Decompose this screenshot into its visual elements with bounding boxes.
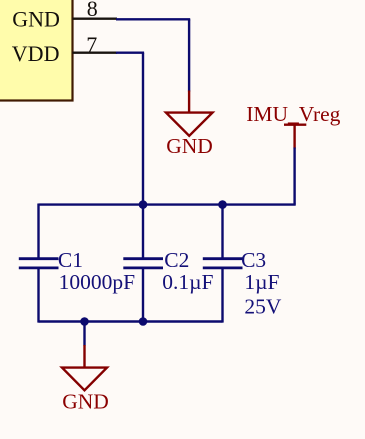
power GND triangle (top)	[166, 113, 213, 136]
capacitor C3 bottom lead	[221, 268, 223, 323]
capacitor C1 bottom lead	[37, 268, 39, 323]
svg-text:GND: GND	[12, 7, 60, 32]
svg-text:C2: C2	[164, 248, 189, 272]
pin 8	[73, 18, 118, 20]
junction dot top rail / C3	[218, 200, 227, 209]
capacitor C3 plates	[203, 257, 243, 260]
power GND triangle (bottom)	[62, 368, 107, 391]
power GND stub (top)	[188, 91, 190, 114]
svg-text:GND: GND	[166, 134, 213, 158]
wire top rail	[39, 203, 296, 205]
junction dot top rail / C2	[139, 200, 148, 209]
svg-text:1µF: 1µF	[244, 270, 279, 294]
wire IMU_Vreg vertical	[293, 148, 295, 205]
capacitor C1 top lead	[37, 204, 39, 259]
svg-text:25V: 25V	[244, 295, 282, 319]
svg-text:0.1µF: 0.1µF	[162, 270, 213, 294]
svg-text:C3: C3	[241, 248, 266, 272]
svg-text:C1: C1	[58, 248, 83, 272]
pin 7	[73, 52, 118, 54]
power port IMU_Vreg bar	[284, 123, 306, 125]
wire pin7 vertical down to rail	[142, 53, 144, 206]
capacitor C3 top lead	[221, 204, 223, 259]
power port IMU_Vreg stub	[293, 125, 295, 149]
svg-text:7: 7	[86, 32, 97, 57]
wire bottom rail	[39, 320, 223, 322]
power GND stub (bottom)	[83, 345, 85, 368]
wire pin8 vertical down to GND	[188, 19, 190, 91]
junction dot bottom rail / C2	[139, 317, 148, 326]
wire GND stub vertical (bottom)	[83, 322, 85, 346]
junction dot bottom rail / GND	[80, 317, 89, 326]
svg-text:8: 8	[87, 0, 98, 21]
component body U? (IC fragment)	[0, 0, 73, 101]
capacitor C2 top lead	[142, 204, 144, 259]
wire pin7 horizontal	[116, 52, 144, 54]
wire pin8 horizontal	[116, 18, 190, 20]
svg-text:GND: GND	[62, 389, 109, 413]
svg-text:IMU_Vreg: IMU_Vreg	[246, 102, 340, 126]
capacitor C2 plates	[123, 257, 163, 260]
capacitor C2 bottom lead	[142, 268, 144, 323]
svg-text:VDD: VDD	[12, 41, 60, 66]
svg-text:10000pF: 10000pF	[59, 270, 136, 294]
capacitor C1 plates	[19, 257, 59, 260]
